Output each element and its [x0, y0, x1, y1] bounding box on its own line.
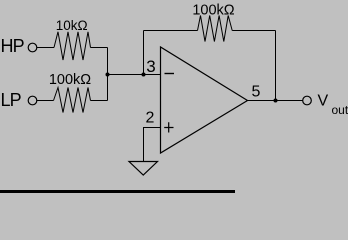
wire pin 2 to ground stem	[144, 128, 161, 162]
wire feedback top rail right	[232, 30, 275, 32]
wire vertical junction column	[107, 48, 109, 101]
bottom rule bar	[0, 190, 235, 193]
wire HP terminal to R1	[37, 47, 54, 49]
terminal Vout	[303, 96, 312, 105]
wire R1 to junction column	[91, 47, 108, 49]
svg-text:out: out	[332, 103, 348, 117]
terminal LP	[28, 96, 37, 105]
svg-text:LP: LP	[1, 90, 22, 110]
svg-text:3: 3	[146, 57, 155, 76]
svg-text:10kΩ: 10kΩ	[56, 18, 88, 33]
wire R2 to junction column	[91, 100, 108, 102]
svg-text:HP: HP	[1, 36, 25, 56]
svg-text:100kΩ: 100kΩ	[192, 3, 234, 19]
wire junction to opamp inverting input pin 3	[108, 74, 161, 76]
svg-text:V: V	[318, 93, 329, 110]
wire LP terminal to R2	[37, 100, 54, 102]
wire output	[247, 100, 303, 102]
op-amp minus sign	[165, 73, 175, 75]
junction node feedback tap	[142, 73, 146, 77]
svg-text:100kΩ: 100kΩ	[49, 72, 91, 88]
op-amp U1 triangle	[161, 47, 248, 153]
junction node on column	[106, 73, 110, 77]
terminal HP	[28, 43, 37, 52]
op-amp plus sign	[164, 122, 173, 132]
wire feedback right vertical	[275, 31, 277, 101]
svg-text:5: 5	[252, 84, 261, 101]
svg-text:2: 2	[146, 110, 155, 127]
resistor R2 100k zigzag	[54, 88, 91, 113]
ground symbol	[129, 162, 158, 176]
wire feedback left vertical	[143, 31, 145, 75]
resistor R1 10k zigzag	[54, 32, 91, 60]
wire feedback top rail left	[144, 30, 198, 32]
resistor R3 100k feedback zigzag	[198, 16, 233, 42]
junction node output	[274, 99, 278, 103]
